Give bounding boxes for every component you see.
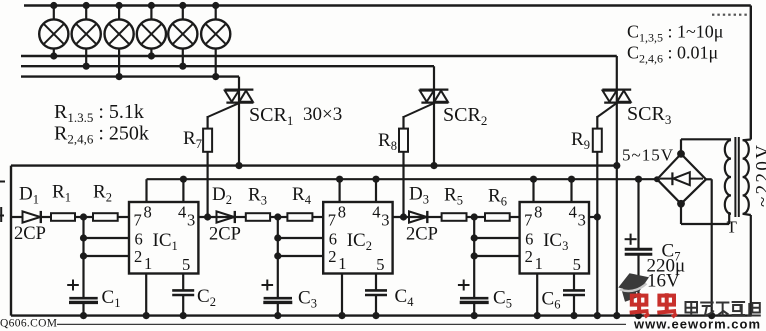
- node pin6 tap stage 3: [471, 234, 478, 241]
- node R8 tap junction: [400, 213, 407, 220]
- diode D3 (2CP): [409, 211, 442, 223]
- op-amp/timer IC1: [129, 202, 198, 274]
- SCR1 triac: [225, 77, 254, 166]
- svg-text:SCR3: SCR3: [627, 103, 671, 127]
- scan edge artifacts left: [0, 182, 5, 223]
- lamp EL6: [201, 6, 230, 77]
- node lamp EL5 bottom junction: [179, 63, 186, 70]
- wire bridge top to transformer secondary top: [681, 139, 731, 154]
- svg-text:SCR2: SCR2: [443, 104, 487, 128]
- wire timing node vertical stage 3: [474, 217, 519, 298]
- node IC1 pin4 Vcc junction: [180, 176, 187, 183]
- capacitor C1 electrolytic: [67, 280, 98, 316]
- wire timing node vertical stage 2: [278, 217, 323, 298]
- node IC3 pin8 Vcc junction: [530, 176, 537, 183]
- node DC- ground junction: [708, 312, 715, 319]
- node bridge left DC+ vertex: [654, 176, 660, 182]
- node lamp EL1 top junction: [50, 2, 57, 9]
- svg-text:1: 1: [144, 254, 152, 273]
- svg-text:30×3: 30×3: [303, 104, 342, 125]
- capacitor C3 electrolytic: [262, 280, 293, 316]
- svg-text:3: 3: [578, 211, 586, 230]
- transformer T primary winding: [743, 140, 751, 316]
- wire lamp bus line 3 (to SCR1): [21, 75, 239, 77]
- svg-text:T: T: [727, 218, 738, 237]
- node R9 line ground junction: [594, 312, 601, 319]
- node pin2 tap stage 1: [80, 252, 87, 259]
- svg-text:4: 4: [178, 203, 186, 222]
- node IC3 pin1 ground junction: [534, 312, 541, 319]
- watermark graduation cap logo: [618, 273, 649, 302]
- node C4 ground junction: [372, 312, 379, 319]
- svg-text:www.eeworm.com: www.eeworm.com: [633, 317, 761, 331]
- node lamp EL1 bottom junction: [50, 52, 57, 59]
- wire lamp bus line 1 (to SCR3): [21, 55, 617, 57]
- node IC2 pin1 ground junction: [338, 312, 345, 319]
- wire IC2 pin 4 to Vcc: [375, 179, 377, 202]
- node C2 ground junction: [180, 312, 187, 319]
- wire IC3 pin3 output: [589, 216, 597, 218]
- svg-text:7: 7: [328, 211, 336, 230]
- svg-text:6: 6: [135, 230, 143, 249]
- svg-text:2: 2: [525, 247, 533, 266]
- capacitor C7 220u 16V: [625, 179, 653, 315]
- diode D1 (2CP): [11, 211, 51, 223]
- wire IC2 pin3 output: [393, 216, 409, 218]
- svg-text:2: 2: [328, 247, 336, 266]
- svg-text:2CP: 2CP: [209, 225, 241, 245]
- node C1 ground junction: [80, 312, 87, 319]
- wire IC1 pin 1 to ground: [145, 274, 147, 316]
- capacitor C4: [365, 274, 387, 316]
- resistor R9: [593, 129, 602, 316]
- svg-text:6: 6: [525, 230, 533, 249]
- svg-text:5: 5: [182, 255, 190, 274]
- node pin6 tap stage 1: [80, 234, 87, 241]
- scan speckle: [712, 14, 747, 16]
- node pin2 tap stage 3: [471, 252, 478, 259]
- node lamp EL2 top junction: [83, 2, 90, 9]
- node SCR3 line ground junction: [613, 312, 620, 319]
- SCR3 triac: [602, 56, 631, 316]
- node IC2 pin4 Vcc junction: [372, 176, 379, 183]
- svg-text:5~15V: 5~15V: [622, 146, 674, 165]
- wire frame left edge: [10, 166, 12, 316]
- node pin6 tap stage 2: [274, 234, 281, 241]
- transformer T secondary winding: [725, 140, 731, 214]
- svg-text:5: 5: [376, 255, 384, 274]
- node C6 ground junction: [570, 312, 577, 319]
- node lamp EL6 bottom junction: [212, 73, 219, 80]
- op-amp/timer IC2: [323, 202, 392, 274]
- capacitor C6: [563, 274, 585, 316]
- wire IC1 pin 4 to Vcc: [182, 179, 184, 202]
- node IC3 pin4 Vcc junction: [568, 176, 575, 183]
- resistor R3: [246, 213, 278, 221]
- lamp EL3: [105, 6, 134, 77]
- svg-text:SCR1: SCR1: [249, 104, 293, 128]
- wire SCR1 gate: [208, 104, 238, 129]
- node R9 tap junction: [594, 213, 601, 220]
- wire IC3 pin 4 to Vcc: [570, 179, 572, 202]
- lamp EL2: [72, 6, 101, 67]
- op-amp/timer IC3: [520, 202, 589, 274]
- wire SCR3 gate: [597, 104, 616, 129]
- node C7 ground junction: [635, 312, 642, 319]
- svg-text:2: 2: [134, 247, 142, 266]
- resistor R5: [442, 213, 475, 221]
- wire SCR2 gate: [404, 104, 434, 129]
- node lamp EL4 bottom junction: [148, 52, 155, 59]
- node C7 Vcc junction: [635, 176, 642, 183]
- svg-text:2CP: 2CP: [406, 225, 438, 245]
- lamp EL1: [39, 6, 68, 57]
- svg-text:Q606.COM: Q606.COM: [0, 318, 57, 330]
- wire bridge right DC- to ground rail: [706, 179, 712, 315]
- wire IC1 pin3 output: [198, 216, 216, 218]
- wire IC3 pin 1 to ground: [536, 274, 538, 316]
- node lamp EL4 top junction: [148, 2, 155, 9]
- svg-text:4: 4: [569, 203, 577, 222]
- lamp EL4: [137, 6, 166, 57]
- svg-text:1: 1: [535, 254, 543, 273]
- node junction R3/R4 x277.8: [274, 213, 281, 220]
- svg-text:2CP: 2CP: [14, 224, 46, 244]
- svg-text:8: 8: [338, 203, 346, 222]
- svg-text:~220V: ~220V: [753, 145, 766, 207]
- node bridge top AC vertex: [677, 150, 685, 158]
- wire top 220V bus: [24, 6, 751, 140]
- resistor R8: [399, 129, 408, 217]
- node IC2 pin8 Vcc junction: [336, 176, 343, 183]
- node lamp EL5 top junction: [179, 2, 186, 9]
- watermark underline: [57, 323, 626, 325]
- svg-text:3: 3: [381, 211, 389, 230]
- node C5 ground junction: [471, 312, 478, 319]
- node lamp EL2 bottom junction: [83, 63, 90, 70]
- watermark chinese site name glyphs: [686, 301, 761, 316]
- node lamp EL6 top junction: [212, 2, 219, 9]
- wire IC1 pin 8 to Vcc: [145, 179, 147, 202]
- node SCR1 cathode junction: [235, 162, 242, 169]
- transformer T core: [735, 137, 738, 217]
- node bridge bottom AC vertex: [677, 200, 685, 208]
- node C3 ground junction: [274, 312, 281, 319]
- node R7 tap junction: [204, 213, 211, 220]
- resistor R4: [278, 213, 323, 221]
- wire SCR cathode bus (frame top): [11, 164, 617, 166]
- capacitor C5 electrolytic: [458, 280, 489, 316]
- svg-text:16V: 16V: [647, 271, 680, 292]
- svg-text:5: 5: [573, 255, 581, 274]
- resistor R7: [203, 129, 212, 217]
- node lamp EL3 bottom junction: [116, 73, 123, 80]
- svg-text:4: 4: [372, 203, 380, 222]
- node IC1 pin1 ground junction: [143, 312, 150, 319]
- node SCR3 cathode junction: [613, 162, 620, 169]
- node pin2 tap stage 2: [274, 252, 281, 259]
- capacitor C2: [172, 274, 194, 316]
- watermark red chong chong characters: [630, 293, 677, 317]
- svg-text:8: 8: [144, 203, 152, 222]
- node SCR2 cathode junction: [430, 162, 437, 169]
- diode D2 (2CP): [217, 211, 246, 223]
- wire ground rail (frame bottom): [11, 314, 752, 316]
- svg-text:1: 1: [338, 254, 346, 273]
- node lamp EL3 top junction: [116, 2, 123, 9]
- svg-text:7: 7: [524, 211, 532, 230]
- svg-text:8: 8: [534, 203, 542, 222]
- wire IC2 pin 1 to ground: [341, 274, 343, 316]
- lamp EL5: [168, 6, 197, 67]
- svg-text:7: 7: [134, 211, 142, 230]
- resistor R6: [474, 213, 519, 221]
- wire lamp bus line 2 (to SCR2): [21, 65, 434, 67]
- node junction R5/R6 x474.2: [471, 213, 478, 220]
- bridge rectifier: [657, 154, 706, 204]
- node junction R1/R2 x83.5: [80, 213, 87, 220]
- resistor R1: [51, 213, 84, 221]
- SCR2 triac: [420, 66, 449, 165]
- svg-text:3: 3: [187, 211, 195, 230]
- svg-text:6: 6: [329, 230, 337, 249]
- wire timing node vertical stage 1: [84, 217, 130, 298]
- resistor R2: [84, 213, 130, 221]
- wire IC2 pin 8 to Vcc: [339, 179, 341, 202]
- wire bridge bottom to transformer secondary bottom: [681, 204, 729, 224]
- wire Vcc rail: [147, 178, 658, 180]
- wire IC3 pin 8 to Vcc: [532, 179, 534, 202]
